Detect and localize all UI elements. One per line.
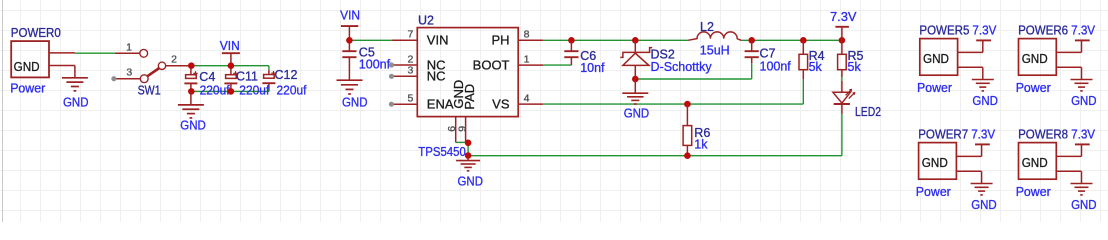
svg-text:C7: C7 — [760, 47, 776, 61]
svg-text:8: 8 — [524, 29, 530, 41]
svg-text:VS: VS — [492, 97, 510, 112]
svg-text:Power: Power — [917, 81, 952, 95]
svg-text:POWER5: POWER5 — [919, 24, 969, 38]
svg-text:2: 2 — [407, 53, 413, 65]
svg-text:10nf: 10nf — [580, 61, 605, 75]
svg-text:GND: GND — [971, 198, 997, 212]
svg-text:2: 2 — [171, 54, 177, 66]
svg-text:3: 3 — [407, 65, 413, 77]
svg-text:GND: GND — [180, 119, 206, 133]
svg-text:VIN: VIN — [220, 39, 240, 53]
svg-text:GND: GND — [1071, 94, 1097, 108]
svg-text:POWER8: POWER8 — [1018, 128, 1068, 142]
svg-text:3: 3 — [126, 66, 132, 78]
svg-text:GND: GND — [972, 94, 998, 108]
svg-text:7.3V: 7.3V — [1071, 24, 1096, 38]
svg-text:GND: GND — [624, 107, 650, 121]
svg-text:PAD: PAD — [462, 84, 477, 110]
svg-text:100nf: 100nf — [359, 58, 391, 72]
svg-text:15uH: 15uH — [700, 43, 730, 57]
svg-text:C4: C4 — [199, 70, 215, 84]
svg-text:1k: 1k — [694, 137, 708, 151]
svg-text:PH: PH — [491, 33, 509, 48]
svg-text:GND: GND — [923, 52, 949, 66]
svg-text:7.3V: 7.3V — [971, 128, 996, 142]
svg-text:1: 1 — [126, 42, 132, 54]
svg-text:Power: Power — [10, 81, 45, 95]
svg-text:LED2: LED2 — [855, 105, 881, 119]
svg-text:L2: L2 — [700, 20, 714, 34]
svg-text:GND: GND — [63, 96, 89, 110]
svg-text:GND: GND — [1022, 52, 1048, 66]
svg-text:1: 1 — [524, 54, 530, 66]
svg-text:VIN: VIN — [427, 33, 449, 48]
svg-text:7.3V: 7.3V — [972, 24, 997, 38]
svg-text:GND: GND — [922, 156, 948, 170]
svg-text:220uf: 220uf — [239, 83, 270, 97]
svg-text:220uf: 220uf — [277, 83, 308, 97]
svg-text:SW1: SW1 — [138, 83, 161, 97]
svg-text:9: 9 — [456, 126, 468, 132]
svg-text:POWER0: POWER0 — [11, 26, 61, 40]
svg-text:7.3V: 7.3V — [830, 10, 857, 24]
svg-text:D-Schottky: D-Schottky — [651, 60, 713, 74]
svg-text:Power: Power — [916, 185, 951, 199]
svg-text:7: 7 — [407, 29, 413, 41]
svg-text:GND: GND — [458, 174, 484, 188]
svg-text:5: 5 — [407, 93, 413, 105]
svg-text:Power: Power — [1016, 81, 1051, 95]
svg-text:GND: GND — [1071, 198, 1097, 212]
svg-text:VIN: VIN — [340, 8, 360, 22]
svg-text:BOOT: BOOT — [473, 57, 510, 72]
svg-text:5k: 5k — [848, 60, 862, 74]
svg-text:TPS5450: TPS5450 — [418, 145, 466, 159]
svg-text:C11: C11 — [236, 69, 258, 83]
svg-text:GND: GND — [1022, 156, 1048, 170]
svg-text:POWER7: POWER7 — [918, 128, 968, 142]
svg-text:100nf: 100nf — [760, 60, 792, 74]
svg-text:5k: 5k — [809, 60, 823, 74]
svg-text:C12: C12 — [275, 68, 298, 82]
svg-text:ENA: ENA — [427, 97, 454, 112]
svg-text:GND: GND — [14, 60, 40, 74]
svg-text:220uf: 220uf — [200, 83, 231, 97]
svg-text:7.3V: 7.3V — [1071, 128, 1096, 142]
svg-text:U2: U2 — [418, 14, 434, 28]
svg-text:NC: NC — [427, 69, 446, 84]
svg-text:4: 4 — [524, 93, 530, 105]
svg-text:GND: GND — [342, 95, 368, 109]
svg-text:Power: Power — [1016, 185, 1051, 199]
svg-text:POWER6: POWER6 — [1018, 24, 1068, 38]
